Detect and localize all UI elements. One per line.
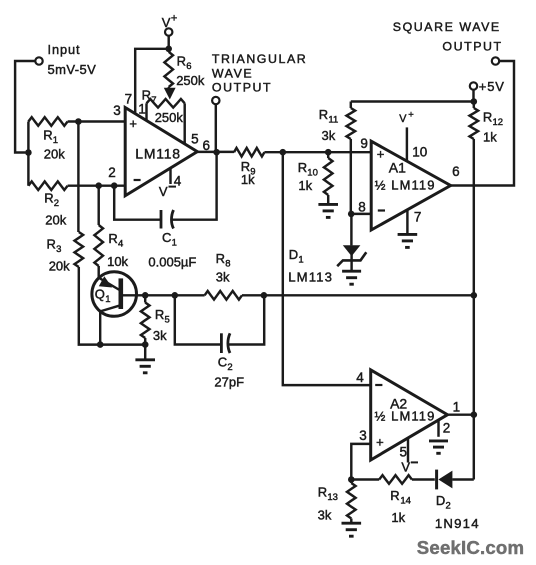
wire A2 pin3 (351, 444, 370, 480)
svg-text:R: R (216, 251, 225, 266)
pin 4 stub (169, 169, 171, 185)
svg-text:½ LM119: ½ LM119 (375, 177, 436, 192)
svg-text:1N914: 1N914 (435, 516, 480, 531)
node LM118 output junction (213, 149, 220, 156)
capacitor C2 (175, 295, 264, 353)
resistor R9 (234, 148, 371, 157)
label R11 (319, 107, 338, 125)
node R4 junction (95, 182, 102, 189)
label R5 (155, 307, 170, 325)
svg-text:+: + (171, 13, 177, 25)
label R1 (43, 128, 58, 146)
Q1 base bar (119, 278, 124, 309)
diode D1 LM113 zener (337, 214, 366, 271)
label 3k R8 (216, 270, 230, 285)
label 20k R2 (45, 213, 66, 228)
svg-text:Q: Q (95, 287, 105, 302)
svg-text:250k: 250k (176, 73, 205, 88)
svg-text:10k: 10k (107, 254, 128, 269)
ground below D1 (342, 271, 361, 284)
node ground junction (142, 341, 149, 348)
pin 4 label (174, 174, 182, 189)
label 20k R3 (49, 259, 70, 274)
pin 6 label (203, 138, 211, 153)
node Q1 base junction (142, 292, 149, 299)
label A1 (389, 160, 406, 176)
label 3k R5 (153, 328, 167, 343)
op-amp LM118 triangle (125, 108, 197, 196)
svg-text:R: R (108, 231, 117, 246)
svg-text:2: 2 (108, 165, 116, 180)
svg-text:3: 3 (359, 428, 367, 443)
pin 2 label (108, 165, 116, 180)
wire V+ to pin7 (135, 49, 169, 114)
node Q1 collector junction (97, 341, 104, 348)
wire square output to A1 (451, 61, 514, 186)
label C1 (162, 230, 177, 248)
capacitor C1 (114, 152, 216, 228)
label R3 (47, 237, 62, 255)
label half LM119 A2 (375, 409, 436, 424)
label 1N914 (435, 516, 480, 531)
label TRIANGULAR WAVE OUTPUT (212, 52, 307, 94)
pin 5 label (191, 131, 199, 146)
resistor R10 (324, 152, 333, 203)
label V- A2 (401, 459, 418, 474)
label 250k R6 (176, 73, 205, 88)
ground below R10 (318, 204, 338, 217)
terminal triangular output (212, 97, 219, 104)
node A2 feed junction (280, 149, 287, 156)
resistor R6 (164, 49, 173, 87)
svg-text:1: 1 (453, 400, 461, 415)
pin 3 label (113, 103, 121, 118)
label 20k R1 (44, 147, 65, 162)
label 3k R11 (322, 128, 336, 143)
wire +5V rail to R11 (351, 100, 474, 102)
node C2 right junction (261, 292, 268, 299)
node R13 junction (348, 476, 355, 483)
svg-text:20k: 20k (49, 259, 70, 274)
label 1k R12 (483, 130, 497, 145)
node C2 left junction (172, 292, 179, 299)
watermark SeekIC.com (417, 537, 524, 558)
svg-text:20k: 20k (44, 147, 65, 162)
label R7 (142, 88, 157, 106)
pin 4 label A2 (356, 370, 364, 385)
svg-text:WAVE: WAVE (212, 67, 253, 81)
svg-text:1k: 1k (241, 172, 255, 187)
svg-text:OUTPUT: OUTPUT (212, 80, 272, 94)
svg-text:1: 1 (172, 237, 177, 248)
svg-text:D: D (289, 247, 298, 262)
svg-text:1k: 1k (298, 178, 312, 193)
ground below A2 pin2 (429, 441, 448, 453)
A1 plus mark (377, 146, 385, 161)
svg-text:8: 8 (225, 258, 230, 269)
resistor R4 (94, 186, 103, 278)
svg-text:5: 5 (400, 444, 408, 459)
resistor R8 (205, 291, 474, 300)
pin 1 label (138, 102, 146, 117)
A1 minus mark (378, 209, 385, 211)
pin 5 label A2 (400, 444, 408, 459)
resistor R12 (470, 102, 479, 480)
node V+ junction (165, 46, 172, 53)
diode D2 1N914 (437, 470, 474, 490)
svg-text:R: R (155, 307, 164, 322)
potentiometer R7 (147, 99, 185, 144)
svg-text:V: V (162, 15, 171, 30)
wire +5V down (472, 90, 474, 102)
svg-text:R: R (142, 88, 151, 103)
wire left vertical R1-R2 (27, 122, 29, 186)
A2 minus mark (375, 384, 382, 386)
pin 6 label A1 (452, 164, 460, 179)
label R12 (483, 110, 503, 128)
pin 3 label A2 (359, 428, 367, 443)
node pin8 junction (348, 211, 355, 218)
svg-text:LM118: LM118 (135, 146, 181, 162)
svg-text:8: 8 (358, 200, 366, 215)
svg-text:250k: 250k (155, 110, 184, 125)
wire input to R1/R2 node (15, 61, 35, 153)
svg-text:1k: 1k (483, 130, 497, 145)
svg-text:9: 9 (360, 136, 368, 151)
svg-text:+: + (377, 146, 385, 161)
svg-text:4: 4 (118, 238, 123, 249)
svg-text:+5V: +5V (479, 79, 505, 94)
label 1k R14 (391, 510, 405, 525)
resistor R1 (28, 117, 125, 126)
resistor R3 (75, 122, 146, 345)
svg-text:+: + (129, 116, 137, 131)
label C2 (218, 355, 233, 373)
terminal +5V (470, 82, 477, 89)
ground below R13 (342, 523, 362, 536)
potentiometer wiper arrow (164, 87, 176, 100)
svg-text:1k: 1k (391, 510, 405, 525)
label R13 (318, 485, 338, 503)
pin 8 label (358, 200, 366, 215)
label D2 (436, 493, 451, 511)
svg-text:1: 1 (53, 135, 58, 146)
A1 V+ stub pin10 (406, 127, 408, 161)
svg-text:SeekIC.com: SeekIC.com (417, 537, 524, 558)
svg-text:R: R (318, 485, 327, 500)
svg-text:3k: 3k (216, 270, 230, 285)
label 10k (107, 254, 128, 269)
svg-text:10: 10 (412, 144, 427, 159)
svg-text:R: R (43, 128, 52, 143)
label +5V (479, 79, 505, 94)
wire A2 output (446, 413, 474, 415)
svg-text:0.005µF: 0.005µF (148, 254, 196, 269)
svg-text:3: 3 (113, 103, 121, 118)
input terminal (35, 57, 42, 64)
ground below A1 pin7 (398, 234, 418, 247)
label 27pF (214, 374, 244, 389)
terminal V+ (165, 28, 172, 35)
label LM118 (135, 146, 181, 162)
svg-text:R: R (47, 237, 56, 252)
svg-text:7: 7 (151, 95, 156, 106)
label Input 5mV-5V (48, 42, 97, 77)
svg-text:D: D (436, 493, 445, 508)
A2 plus mark (376, 434, 384, 449)
svg-text:½ LM119: ½ LM119 (375, 409, 436, 424)
label 250k R7 (155, 110, 184, 125)
wire Q1 base to R8 (145, 294, 204, 296)
svg-text:SQUARE WAVE: SQUARE WAVE (393, 20, 501, 34)
svg-text:3k: 3k (153, 328, 167, 343)
svg-text:2: 2 (446, 500, 451, 511)
label half LM119 A1 (375, 177, 436, 192)
label D1 (289, 247, 304, 265)
svg-text:11: 11 (328, 114, 338, 125)
label 1k R10 (298, 178, 312, 193)
svg-text:6: 6 (186, 61, 191, 72)
svg-text:Input: Input (48, 42, 81, 57)
node +5V junction (471, 98, 478, 105)
wire node to A2 inverting input (283, 152, 371, 385)
resistor R2 (28, 181, 125, 190)
A2 pin5 stub (407, 438, 409, 462)
svg-text:5: 5 (165, 314, 170, 325)
ground below R5 (135, 345, 155, 373)
svg-text:2: 2 (227, 362, 232, 373)
svg-text:7: 7 (125, 91, 133, 106)
label V+ top (162, 13, 178, 31)
svg-text:12: 12 (493, 117, 504, 128)
node A2 output junction (471, 411, 478, 418)
svg-text:1: 1 (105, 294, 110, 305)
A1 pin7 stub (406, 210, 408, 234)
svg-text:C: C (218, 355, 227, 370)
svg-text:R: R (298, 160, 307, 175)
pin 10 label (412, 144, 427, 159)
svg-text:V: V (399, 113, 407, 125)
svg-text:6: 6 (452, 164, 460, 179)
label SQUARE WAVE OUTPUT (393, 20, 503, 54)
label LM113 (288, 270, 333, 285)
wire pin8 (351, 213, 371, 215)
resistor R13 (347, 480, 356, 523)
svg-text:LM113: LM113 (288, 270, 333, 285)
label A2 (390, 396, 407, 412)
svg-text:5: 5 (191, 131, 199, 146)
svg-text:14: 14 (400, 495, 411, 506)
svg-text:+: + (376, 434, 384, 449)
A2 pin2 stub (437, 420, 439, 437)
Q1 collector (100, 305, 121, 344)
svg-text:13: 13 (327, 492, 338, 503)
svg-text:V: V (159, 184, 168, 199)
pin 7 label A1 (414, 210, 422, 225)
Q1 base lead (122, 294, 145, 296)
node pin3-R3 junction (75, 118, 82, 125)
resistor R11 (347, 102, 356, 214)
svg-text:R: R (44, 191, 53, 206)
wire triangular terminal down (215, 104, 217, 152)
label R4 (108, 231, 123, 249)
svg-text:1: 1 (298, 254, 303, 265)
pin 1 label A2 (453, 400, 461, 415)
resistor R14 (351, 475, 435, 484)
Q1 emitter with arrow (99, 276, 121, 290)
node input junction (25, 149, 32, 156)
wire LM118 output (196, 151, 234, 153)
svg-text:+: + (408, 110, 414, 121)
svg-text:10: 10 (307, 167, 318, 178)
transistor Q1 circle (92, 272, 137, 317)
label R14 (390, 488, 411, 506)
svg-text:TRIANGULAR: TRIANGULAR (212, 52, 307, 66)
node right rail junction (471, 292, 478, 299)
svg-text:OUTPUT: OUTPUT (442, 40, 502, 54)
wire V+ down (167, 36, 169, 49)
node C1 junction (111, 182, 118, 189)
label 1k R9 (241, 172, 255, 187)
label R8 (216, 251, 231, 269)
label R10 (298, 160, 318, 178)
label 0.005uF (148, 254, 196, 269)
label Q1 (95, 287, 111, 305)
terminal square wave output (492, 57, 499, 64)
pin 2 label A2 (443, 421, 451, 436)
svg-text:2: 2 (54, 198, 59, 209)
label V+ A1 (399, 110, 414, 125)
pin 7 label (125, 91, 133, 106)
LM118 minus input mark (134, 179, 141, 181)
svg-text:R: R (177, 54, 186, 69)
svg-text:7: 7 (414, 210, 422, 225)
svg-text:3k: 3k (318, 508, 332, 523)
label R9 (241, 159, 256, 177)
label 3k R13 (318, 508, 332, 523)
svg-text:4: 4 (356, 370, 364, 385)
svg-text:20k: 20k (45, 213, 66, 228)
svg-text:1: 1 (138, 102, 146, 117)
svg-text:R: R (390, 488, 399, 503)
node R10 junction (325, 149, 332, 156)
svg-text:5mV-5V: 5mV-5V (48, 62, 97, 77)
svg-text:27pF: 27pF (214, 374, 244, 389)
label R6 (177, 54, 192, 72)
svg-text:3: 3 (56, 244, 61, 255)
resistor R5 (141, 295, 150, 344)
op-amp A1 triangle (371, 141, 450, 230)
pin 9 label (360, 136, 368, 151)
svg-text:R: R (483, 110, 492, 125)
svg-text:A1: A1 (389, 160, 406, 176)
svg-text:3k: 3k (322, 128, 336, 143)
label R2 (44, 191, 59, 209)
svg-text:R: R (319, 107, 328, 122)
label V- LM118 (159, 184, 176, 199)
svg-text:2: 2 (443, 421, 451, 436)
svg-text:C: C (162, 230, 171, 245)
LM118 plus input mark (129, 116, 137, 131)
op-amp A2 triangle (371, 370, 448, 460)
